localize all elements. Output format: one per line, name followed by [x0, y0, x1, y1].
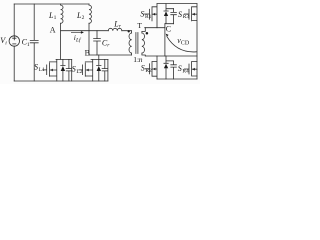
svg-text:S: S — [178, 10, 182, 19]
wire Lr to transformer — [122, 31, 132, 33]
transformer T primary winding — [129, 33, 132, 53]
svg-text:T: T — [137, 21, 142, 30]
svg-text:R2: R2 — [145, 68, 152, 74]
transistor SR1 — [145, 4, 158, 28]
node dot secondary — [146, 32, 149, 35]
wire node A leg — [60, 23, 62, 59]
inductor L1 — [61, 4, 63, 23]
arrow head vCD — [166, 34, 169, 37]
svg-text:S: S — [178, 64, 182, 73]
capacitor bottom pair — [171, 61, 177, 79]
wire bottom rail right — [157, 78, 197, 80]
wire V1 top lead — [13, 4, 15, 36]
svg-text:S: S — [34, 62, 38, 71]
arrow SR3 — [192, 13, 194, 16]
wire node B horizontal run — [89, 54, 132, 56]
wire node A horizontal run — [61, 30, 109, 32]
wire primary bottom — [131, 53, 133, 55]
arrow SL1 — [50, 69, 52, 72]
diode triangle SL2 — [97, 66, 101, 71]
capacitor SL2 — [102, 59, 108, 81]
capacitor C1 — [30, 4, 38, 81]
svg-text:A: A — [50, 26, 56, 35]
transformer core — [136, 33, 138, 54]
svg-text:2: 2 — [82, 15, 85, 21]
svg-text:B: B — [85, 48, 90, 57]
wire V1 bottom lead — [13, 46, 15, 81]
transistor SR3 — [184, 4, 197, 79]
capacitor top pair — [171, 9, 177, 24]
diode SL2 body — [97, 59, 101, 81]
diode top pair — [164, 4, 174, 24]
svg-text:1: 1 — [54, 15, 57, 21]
capacitor SL1 — [66, 59, 72, 81]
V1 plus sign — [13, 37, 16, 40]
wire secondary bottom — [142, 53, 145, 56]
svg-text:L2: L2 — [76, 69, 82, 75]
voltage arrow vCD — [167, 37, 196, 52]
V1 minus sign — [13, 43, 16, 45]
diode bottom pair — [164, 56, 174, 79]
transistor SL1 — [43, 59, 57, 81]
svg-text:CD: CD — [181, 41, 190, 47]
wire node C drop — [164, 24, 166, 56]
diode triangle top pair — [164, 11, 168, 16]
wire rail C — [145, 27, 165, 29]
arrow iLf head — [71, 31, 81, 34]
cell1 mini rail — [56, 58, 72, 60]
svg-text:R4: R4 — [182, 69, 189, 75]
wire bottom rail left — [14, 80, 108, 82]
svg-text:S: S — [72, 64, 76, 73]
svg-text:S: S — [141, 63, 145, 72]
wire node B leg — [88, 23, 90, 55]
voltage source V1 circle — [9, 36, 19, 46]
svg-text:R1: R1 — [145, 14, 152, 20]
wire secondary top — [142, 28, 145, 33]
transistor SR2 — [145, 56, 157, 79]
svg-text:S: S — [140, 9, 144, 18]
capacitor Cr — [94, 31, 101, 55]
wire top rail right — [157, 3, 197, 5]
node dot primary — [128, 30, 130, 32]
diode triangle bottom pair — [164, 64, 168, 69]
arrow SR4 — [192, 68, 194, 71]
diode SL1 body — [61, 59, 65, 81]
cell2 right edge wire — [107, 59, 109, 81]
transformer T secondary winding — [142, 33, 145, 53]
arrow SR1 — [153, 13, 155, 16]
arrow SL2 — [86, 69, 88, 72]
diode triangle SL1 — [61, 66, 65, 71]
cell1 right edge wire — [71, 59, 73, 81]
transistor SR4 — [184, 62, 197, 77]
wire B to cell2 — [98, 55, 100, 59]
transistor SL2 — [79, 59, 93, 81]
svg-text:1: 1 — [27, 42, 30, 48]
cell2 mini rail — [91, 58, 108, 60]
arrow SR2 — [153, 68, 155, 71]
wire rail D (y56) — [145, 55, 197, 57]
svg-text:C: C — [166, 25, 171, 34]
wire top rail left — [14, 3, 89, 5]
inductor Lr — [108, 28, 122, 30]
svg-text:L1: L1 — [39, 67, 45, 73]
inductor L2 — [89, 4, 91, 23]
svg-text:R3: R3 — [183, 14, 190, 20]
